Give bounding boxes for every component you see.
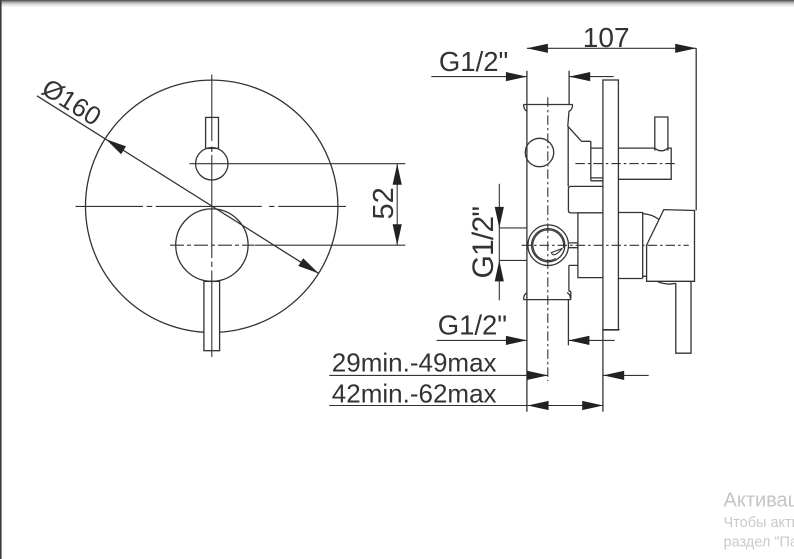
G1/2 port outer circle <box>528 225 569 266</box>
body right profile upper <box>568 111 591 187</box>
temperature handle circle (bottom) <box>176 209 248 281</box>
G1/2 bottom ext line right <box>567 300 569 345</box>
G1/2 bottom arrowhead right-pointing <box>506 336 527 345</box>
grip-to-rod fillet <box>657 281 676 284</box>
107 dimension line <box>527 47 696 49</box>
42-62 arrowhead left-pointing <box>528 401 549 410</box>
escutcheon plate (white fill occludes bar) <box>603 80 619 330</box>
42-62 arrowhead right-pointing <box>582 401 603 410</box>
horizontal centerline front view <box>76 205 347 207</box>
knob stem side view <box>655 117 668 151</box>
29min-49max dimension line <box>329 374 648 376</box>
52 arrowhead down <box>393 224 402 245</box>
G1/2 mid ext lines <box>499 228 527 261</box>
52 dim: extension line bottom <box>255 244 405 246</box>
svg-text:Активация Windows: Активация Windows <box>724 490 794 512</box>
lever handle rectangle (bottom, white fill occludes big circle arc) <box>204 281 220 350</box>
G1/2 port inner circle <box>532 229 565 262</box>
G1/2 bottom arrowhead left-pointing <box>568 336 589 345</box>
mid block (behind plate) <box>578 213 603 278</box>
body left edge / extension line <box>526 71 528 412</box>
svg-text:G1/2": G1/2" <box>438 310 507 341</box>
rounded housing box <box>568 186 603 213</box>
left border line <box>0 0 2 559</box>
Ø160 arrowhead lower <box>298 258 318 273</box>
G1/2 top dimension line <box>431 76 613 78</box>
extension line top port right <box>568 71 570 105</box>
svg-text:Чтобы активировать Windows, пе: Чтобы активировать Windows, перейдите в <box>724 515 794 531</box>
knob stem rectangle (top) <box>206 117 219 148</box>
top border shade <box>0 0 794 7</box>
G1/2 top arrowhead left-pointing <box>569 72 590 81</box>
52 dimension line vertical <box>396 164 398 246</box>
port chamfer wedge detail <box>551 248 562 254</box>
diverter knob circle (top small) <box>196 148 228 180</box>
107 arrowhead left <box>527 44 548 53</box>
port neck ticks <box>569 243 578 248</box>
plate bottom tick <box>603 329 620 331</box>
29-49 arrowhead left-pointing <box>603 371 624 380</box>
extension line plate left lower <box>602 330 604 412</box>
handle hub <box>618 213 646 279</box>
main axis dash-dot through port <box>522 244 689 246</box>
svg-text:29min.-49max: 29min.-49max <box>332 347 497 377</box>
side view vertical centerline <box>547 97 549 381</box>
Ø160 diagonal dimension line <box>37 96 319 273</box>
bottom port face <box>523 293 571 300</box>
G1/2 mid arrowhead up <box>495 260 504 281</box>
lever rod <box>676 282 691 354</box>
svg-text:раздел "Параметры".: раздел "Параметры". <box>724 535 794 551</box>
bottom circle horizontal centerline <box>170 244 255 246</box>
29-49 arrowhead right-pointing <box>527 371 548 380</box>
G1/2 bottom dimension line <box>437 339 615 341</box>
svg-text:52: 52 <box>368 187 400 219</box>
lever grip polygon <box>647 210 695 282</box>
G1/2 mid vertical dimension line <box>498 184 500 300</box>
svg-text:107: 107 <box>583 22 630 53</box>
big circle Ø160 (escutcheon front) <box>86 80 338 332</box>
Ø160 arrowhead upper <box>106 139 126 154</box>
107 ext line right / grip edge <box>695 48 697 210</box>
lower body ledge <box>569 265 578 299</box>
G1/2 mid arrowhead down <box>495 207 504 228</box>
G1/2 port thread arc <box>533 230 564 261</box>
svg-text:42min.-62max: 42min.-62max <box>332 378 497 408</box>
107 arrowhead right <box>675 44 696 53</box>
top axis dash-dot <box>575 163 675 165</box>
52 dim: extension line top (through knob circle) <box>190 163 406 165</box>
svg-text:G1/2": G1/2" <box>439 46 508 77</box>
hub-to-grip arc <box>643 214 659 220</box>
52 arrowhead up <box>393 164 402 185</box>
knob block right of plate <box>618 148 671 179</box>
cartridge bar top/bottom edges <box>591 148 603 181</box>
top port face <box>523 105 573 112</box>
42min-62max dimension line <box>329 405 603 407</box>
screw boss circle on body <box>525 138 553 166</box>
svg-text:G1/2": G1/2" <box>467 207 500 279</box>
G1/2 top arrowhead right-pointing <box>506 72 527 81</box>
vertical centerline front view <box>211 75 213 358</box>
